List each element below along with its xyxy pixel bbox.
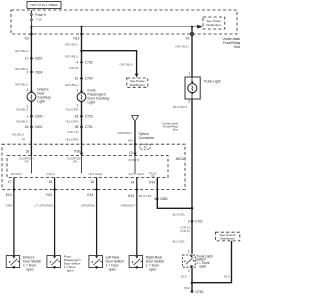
svg-text:2: 2 bbox=[188, 269, 190, 273]
wire: trunk light to trunk latch switch (BLU/WHT then BLU/YEL) bbox=[172, 99, 192, 254]
control unit MICU (dashed) bbox=[7, 156, 185, 178]
svg-text:open: open bbox=[149, 268, 157, 272]
svg-text:BLU/WHT: BLU/WHT bbox=[173, 105, 187, 109]
connector C581 pin 4 bbox=[154, 197, 168, 201]
connector C600 pin 2 bbox=[26, 70, 42, 74]
label Under-dash Fuse/Relay Box (middle right) bbox=[162, 121, 178, 131]
wire: MICU 16 to left rear door switch (GRN/RED) bbox=[81, 178, 97, 256]
node T1 on under-dash box bbox=[134, 143, 150, 149]
option connector bbox=[132, 116, 156, 140]
wire: F2 to trunk light (GRY/BLU) bbox=[175, 27, 192, 77]
junction node BLU/YEL bbox=[191, 207, 194, 210]
svg-text:OR: OR bbox=[73, 160, 77, 164]
switch: left rear door switch bbox=[89, 255, 124, 271]
svg-text:open: open bbox=[67, 269, 74, 273]
wire: branch to See Power Distribution bbox=[82, 51, 139, 78]
svg-text:C723: C723 bbox=[85, 114, 93, 118]
MICU internal: COURTESY OR (passenger) bbox=[67, 156, 82, 174]
svg-text:P24: P24 bbox=[149, 180, 155, 184]
svg-text:(OR 6): (OR 6) bbox=[180, 229, 189, 233]
connector E14 bbox=[87, 188, 98, 197]
connector C732 pin 4 bbox=[77, 61, 93, 65]
svg-text:Connector: Connector bbox=[139, 136, 156, 140]
svg-text:J2: J2 bbox=[22, 137, 26, 141]
MICU internal: INT/LT R bbox=[129, 156, 140, 174]
svg-text:C600: C600 bbox=[35, 114, 43, 118]
svg-text:2: 2 bbox=[188, 219, 190, 223]
svg-text:open: open bbox=[26, 268, 34, 272]
connector H12 bbox=[46, 188, 56, 197]
svg-text:G751: G751 bbox=[195, 290, 203, 294]
reference box: See Ground Distribution bbox=[216, 232, 240, 241]
svg-text:C701: C701 bbox=[195, 219, 203, 223]
svg-text:HOT AT ALL TIMES: HOT AT ALL TIMES bbox=[30, 3, 57, 7]
svg-text:C581: C581 bbox=[160, 197, 168, 201]
under-dash fuse/relay box (top, dashed) bbox=[11, 10, 237, 34]
svg-text:YEL/GRN: YEL/GRN bbox=[65, 108, 79, 112]
svg-text:YEL/GRN: YEL/GRN bbox=[65, 120, 79, 124]
svg-text:Distribution: Distribution bbox=[130, 83, 145, 87]
wire: fuse output bus bbox=[30, 26, 197, 28]
switch: driver's door switch bbox=[6, 255, 41, 271]
connector H13 bbox=[128, 188, 152, 198]
connector C601 pin 18 bbox=[25, 125, 43, 129]
connector C731 pin 26 bbox=[75, 125, 93, 129]
svg-text:YEL/BLU: YEL/BLU bbox=[11, 132, 24, 136]
svg-text:GRY/BLU: GRY/BLU bbox=[15, 82, 29, 86]
svg-text:Distribution: Distribution bbox=[206, 23, 221, 27]
svg-text:(OR 12): (OR 12) bbox=[67, 130, 78, 134]
wire: N13 to front passenger's courtesy light (GRY/BLU) bbox=[65, 27, 82, 93]
svg-text:F2: F2 bbox=[186, 37, 190, 41]
terminal K3 bbox=[25, 33, 33, 41]
svg-text:OR: OR bbox=[25, 160, 29, 164]
svg-text:LEFT REAR: LEFT REAR bbox=[89, 173, 103, 176]
svg-text:(OR 8): (OR 8) bbox=[69, 66, 78, 70]
arrow to See Power Distribution bbox=[197, 25, 202, 29]
svg-text:4: 4 bbox=[77, 61, 79, 65]
svg-text:1: 1 bbox=[26, 114, 28, 118]
switch: trunk latch switch bbox=[183, 254, 214, 268]
svg-text:BLU/YEL: BLU/YEL bbox=[172, 213, 185, 217]
svg-text:BLU/YEL: BLU/YEL bbox=[172, 240, 185, 244]
svg-text:4: 4 bbox=[154, 197, 156, 201]
svg-text:E13: E13 bbox=[6, 193, 12, 197]
svg-text:18: 18 bbox=[25, 149, 29, 153]
svg-text:Distribution: Distribution bbox=[220, 237, 235, 241]
junction node BLK bbox=[191, 281, 194, 284]
connector C723 pin 18 bbox=[75, 114, 93, 118]
svg-text:GRY/BLU: GRY/BLU bbox=[65, 83, 79, 87]
MICU internal: COURTESY OR (driver) bbox=[19, 156, 34, 174]
svg-text:GRY/BLU: GRY/BLU bbox=[175, 44, 189, 48]
svg-text:H12: H12 bbox=[46, 193, 52, 197]
svg-text:BLK: BLK bbox=[224, 275, 231, 279]
wire: option connector to MICU pin 10 (GRN/RED) bbox=[117, 122, 135, 156]
connector C701 pin 2 bbox=[188, 219, 203, 223]
svg-text:Trunk Light: Trunk Light bbox=[204, 80, 221, 84]
svg-text:GRY/BLU: GRY/BLU bbox=[119, 62, 133, 66]
svg-text:BLU/YEL: BLU/YEL bbox=[139, 194, 152, 198]
svg-text:GRY/BLU: GRY/BLU bbox=[15, 49, 29, 53]
svg-text:INT/LT R: INT/LT R bbox=[129, 158, 140, 162]
wire: MICU 15 to front passenger's door switch (LT GRN/RED) bbox=[35, 178, 55, 256]
reference box: See Power Distribution (middle) bbox=[127, 78, 148, 87]
svg-text:10: 10 bbox=[75, 77, 79, 81]
svg-text:H13: H13 bbox=[128, 194, 134, 198]
svg-text:1: 1 bbox=[188, 249, 190, 253]
svg-text:Box: Box bbox=[234, 45, 240, 49]
connector C600 pin 1 bbox=[26, 114, 42, 118]
svg-text:2: 2 bbox=[26, 70, 28, 74]
svg-text:3: 3 bbox=[26, 88, 28, 92]
svg-text:C600: C600 bbox=[35, 70, 43, 74]
svg-text:7.5A: 7.5A bbox=[35, 17, 42, 21]
svg-text:BLK: BLK bbox=[181, 275, 188, 279]
svg-text:1: 1 bbox=[188, 71, 190, 75]
terminal F2 bbox=[186, 32, 194, 40]
svg-text:2: 2 bbox=[188, 100, 190, 104]
MICU pin P30 bbox=[74, 149, 83, 155]
svg-text:18: 18 bbox=[75, 114, 79, 118]
junction node to power distribution branch bbox=[80, 49, 83, 52]
svg-text:C732: C732 bbox=[85, 61, 93, 65]
svg-text:18: 18 bbox=[25, 125, 29, 129]
svg-text:Box: Box bbox=[173, 128, 179, 132]
wire: MICU 17 to driver's door switch (GRN) bbox=[6, 178, 14, 256]
MICU pin 10 bbox=[129, 151, 137, 156]
svg-text:C601: C601 bbox=[35, 125, 43, 129]
svg-text:GRY/BLU: GRY/BLU bbox=[65, 55, 79, 59]
switch: right rear door switch bbox=[129, 255, 164, 271]
svg-text:open: open bbox=[199, 265, 206, 269]
wire: driver's light to MICU pin 18 (YEL/BLU) bbox=[16, 101, 32, 155]
svg-text:17: 17 bbox=[8, 180, 12, 184]
lamp: driver's door courtesy light bbox=[27, 87, 51, 103]
ground G751 bbox=[190, 290, 203, 294]
svg-text:YEL/BLU: YEL/BLU bbox=[16, 120, 29, 124]
under-dash fuse/relay box (middle, dashed) bbox=[2, 144, 185, 189]
label Under-dash Fuse/Relay Box (top right) bbox=[222, 37, 240, 49]
svg-text:BLK: BLK bbox=[185, 286, 192, 290]
switch: front passenger's door switch bbox=[47, 255, 81, 273]
wire: MICU P24 to trunk node (BLU/YEL) bbox=[157, 178, 192, 209]
wire: trunk latch switch to ground (BLK) bbox=[181, 268, 192, 291]
svg-text:15: 15 bbox=[49, 180, 53, 184]
connector C734 pin 10 bbox=[75, 77, 93, 81]
svg-text:LT GRN/RED: LT GRN/RED bbox=[35, 204, 54, 208]
label HOT AT ALL TIMES bbox=[27, 2, 61, 9]
svg-text:P30: P30 bbox=[74, 149, 80, 153]
svg-text:C734: C734 bbox=[85, 77, 93, 81]
svg-text:GRN/RED: GRN/RED bbox=[117, 131, 132, 135]
wire: BLK branch to ground distribution bbox=[192, 241, 232, 283]
svg-text:DRIVER'S: DRIVER'S bbox=[11, 173, 23, 176]
svg-text:RIGHT REAR: RIGHT REAR bbox=[129, 173, 145, 176]
wire: K3 to driver's courtesy light (GRY/BLU) bbox=[15, 27, 32, 93]
svg-text:GRN/WHT: GRN/WHT bbox=[120, 204, 135, 208]
connector E13 bbox=[6, 188, 16, 197]
svg-text:ON: ON bbox=[151, 175, 155, 178]
svg-text:N13: N13 bbox=[73, 37, 79, 41]
svg-text:Light: Light bbox=[88, 101, 95, 105]
reference box: See Power Distribution (top) bbox=[203, 17, 225, 29]
fuse F9 (Fuse 9 7.5A) bbox=[31, 10, 46, 27]
wire: MICU 14 to right rear door switch (GRN/WHT) bbox=[120, 178, 136, 256]
svg-text:GRY/BLU: GRY/BLU bbox=[65, 42, 79, 46]
svg-text:C601: C601 bbox=[35, 57, 43, 61]
lamp: front passenger's door courtesy light bbox=[77, 89, 110, 105]
MICU internal output labels bbox=[11, 172, 158, 178]
svg-text:open: open bbox=[109, 268, 117, 272]
svg-text:10: 10 bbox=[129, 151, 133, 155]
svg-text:T1: T1 bbox=[143, 145, 147, 149]
svg-text:PASS'S: PASS'S bbox=[46, 173, 55, 176]
svg-text:16: 16 bbox=[91, 180, 95, 184]
label (OR 5) (OR 6) bbox=[180, 225, 189, 233]
svg-text:E14: E14 bbox=[87, 193, 93, 197]
svg-text:C731: C731 bbox=[85, 125, 93, 129]
terminal N13 bbox=[73, 33, 83, 41]
wire: passenger light to MICU pin P30 (YEL/GRN) bbox=[65, 102, 82, 156]
svg-text:2: 2 bbox=[77, 88, 79, 92]
svg-text:YEL/GRN: YEL/GRN bbox=[65, 137, 79, 141]
svg-text:K3: K3 bbox=[25, 37, 29, 41]
svg-text:Fuse 9: Fuse 9 bbox=[35, 13, 45, 17]
svg-text:14: 14 bbox=[131, 180, 135, 184]
svg-text:GRN: GRN bbox=[6, 204, 13, 208]
lamp: trunk light bbox=[185, 77, 220, 99]
svg-text:GRN/RED: GRN/RED bbox=[81, 204, 96, 208]
svg-text:26: 26 bbox=[75, 125, 79, 129]
svg-text:17: 17 bbox=[25, 57, 29, 61]
connector C601 pin 17 bbox=[25, 57, 43, 61]
svg-text:YEL/BLU: YEL/BLU bbox=[16, 108, 29, 112]
svg-text:Light: Light bbox=[37, 99, 44, 103]
svg-text:MICU: MICU bbox=[176, 157, 185, 161]
